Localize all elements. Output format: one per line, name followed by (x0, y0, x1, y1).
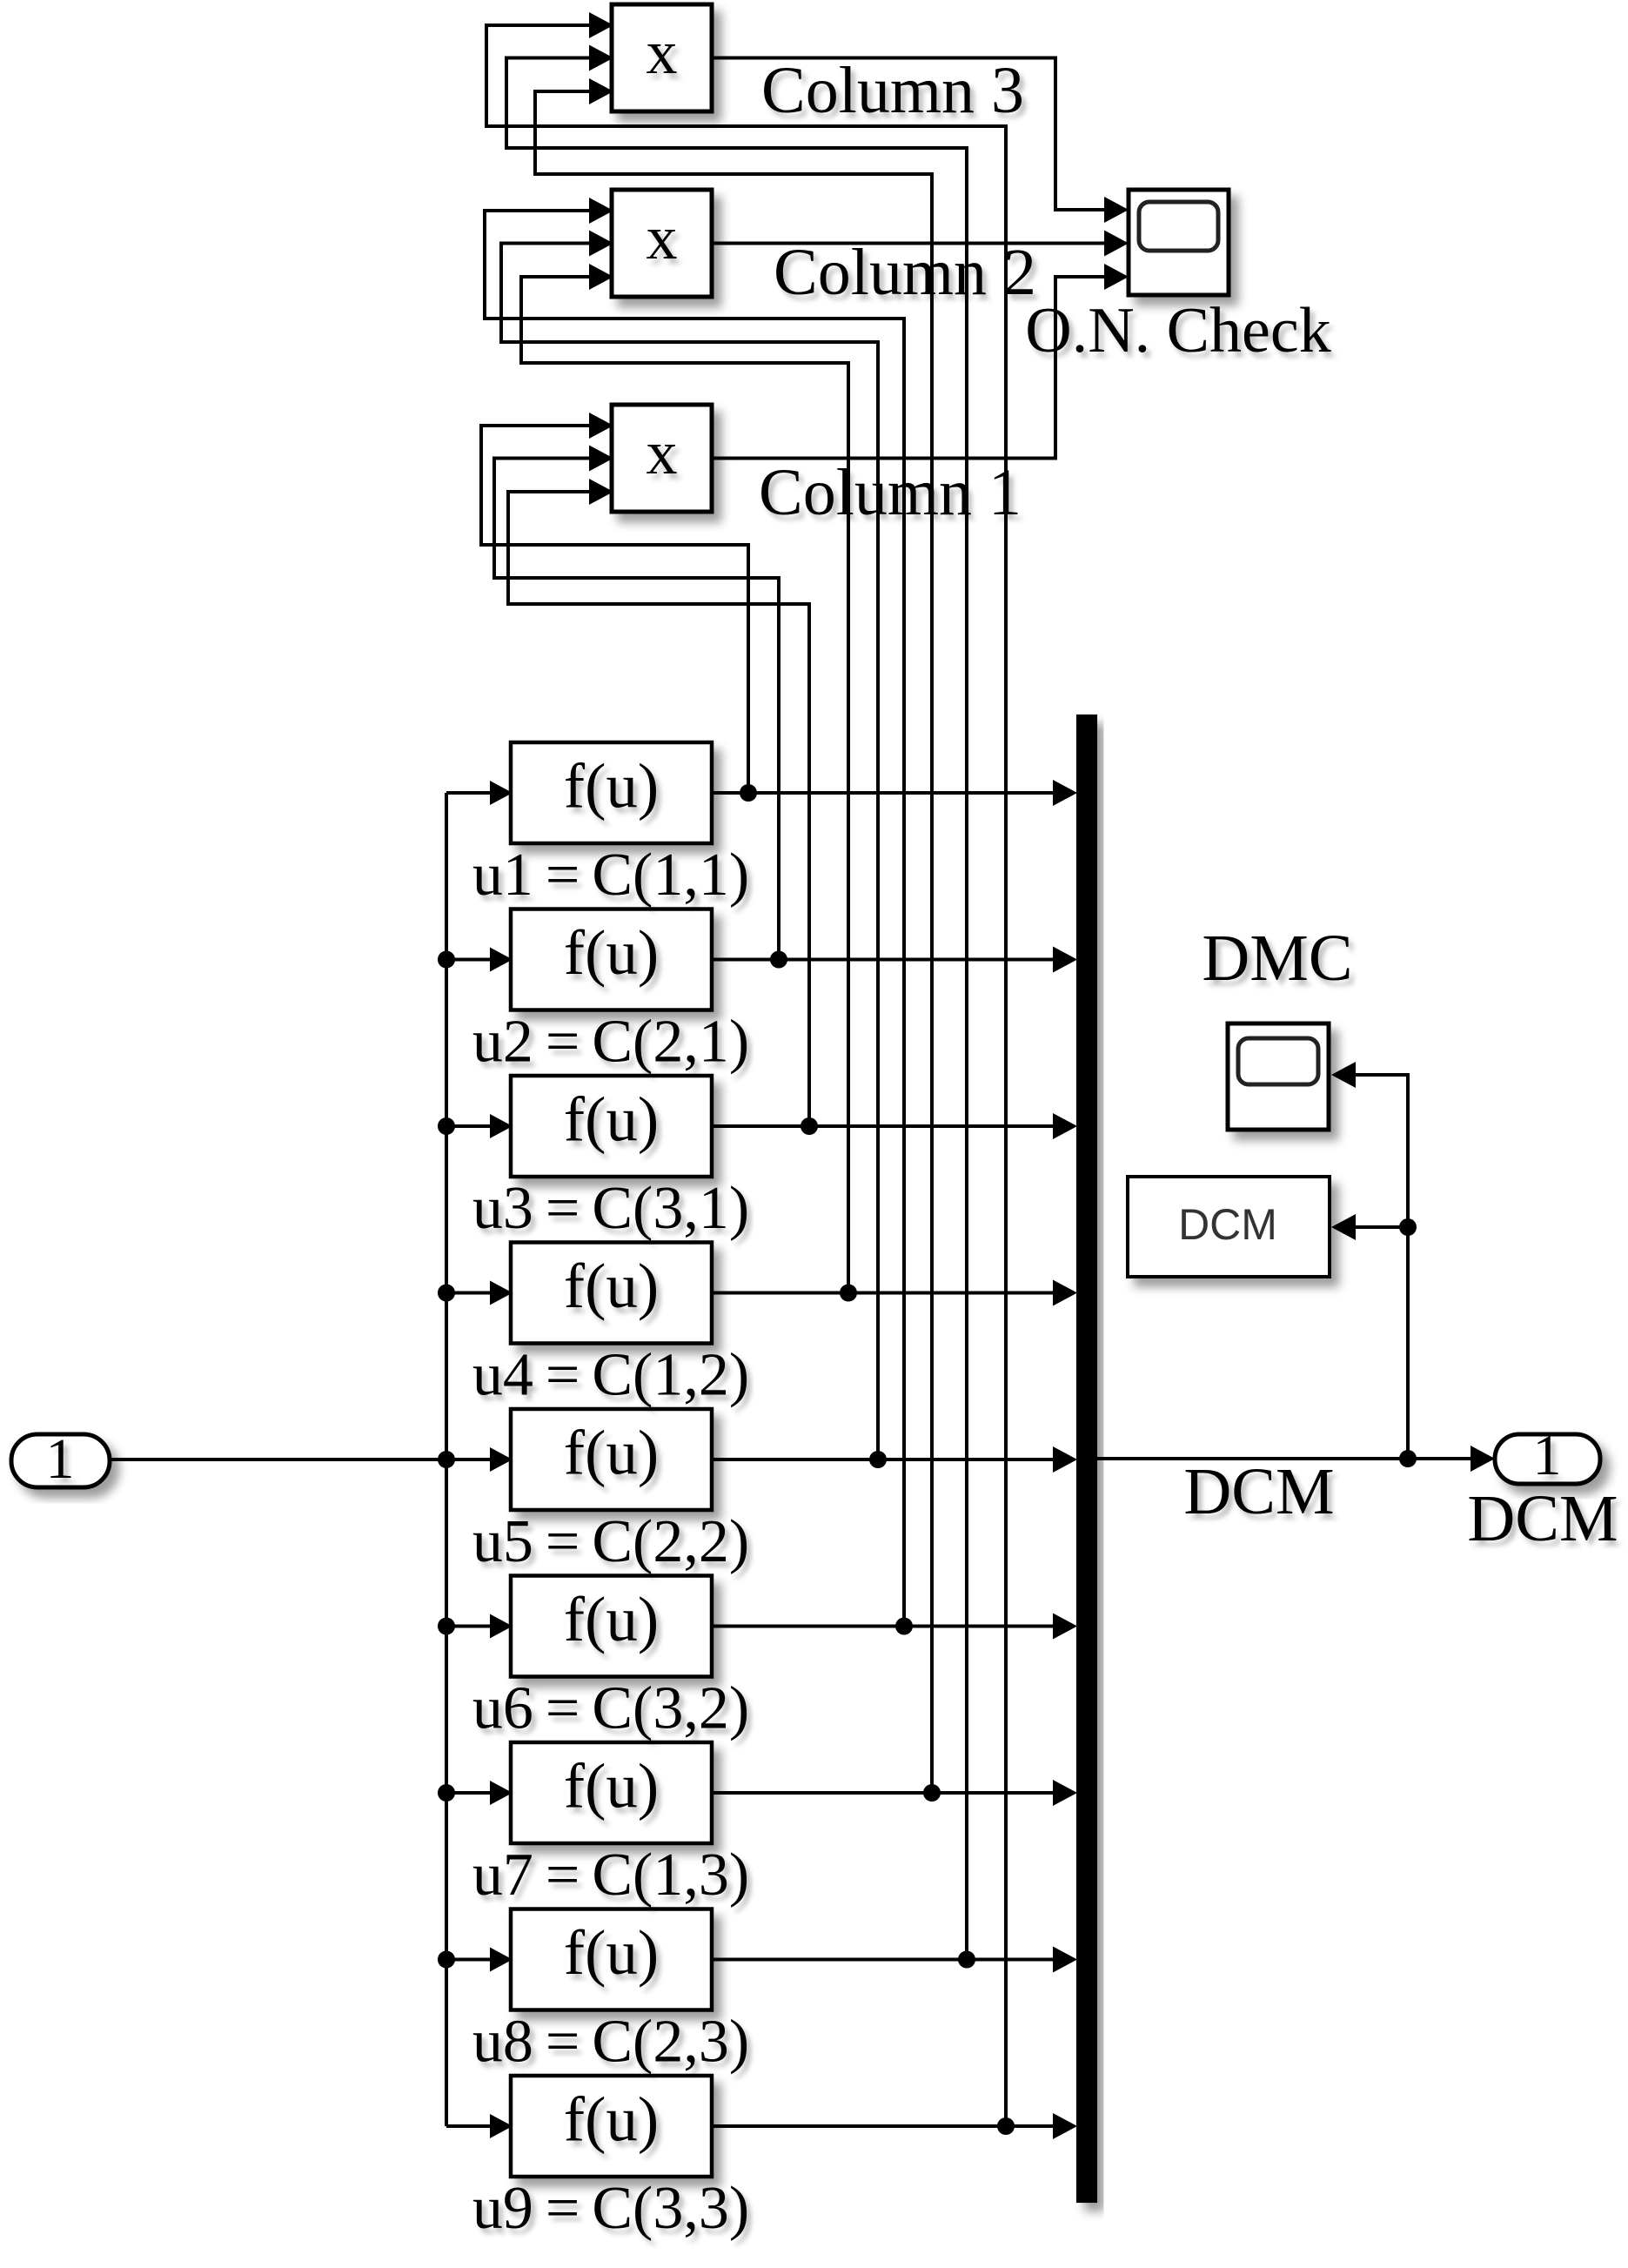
svg-text:x: x (647, 17, 678, 87)
node rail junction row 4 (438, 1285, 455, 1302)
svg-text:Column 2: Column 2 (774, 236, 1036, 309)
node junction DCM/DMC branch (1399, 1218, 1417, 1236)
svg-text:DMC: DMC (1202, 922, 1352, 995)
block Fcn3 f(u) (511, 1076, 712, 1177)
wire Column3 in3 from u7 tap (535, 78, 932, 1793)
svg-text:x: x (647, 203, 678, 272)
svg-text:1: 1 (46, 1427, 75, 1491)
node tap junction u9 (997, 2117, 1015, 2135)
svg-text:f(u): f(u) (564, 1084, 659, 1155)
wire Fcn1 output to Mux in1 (712, 780, 1077, 806)
svg-text:u2 = C(2,1): u2 = C(2,1) (472, 1009, 749, 1076)
svg-text:f(u): f(u) (564, 1917, 659, 1988)
node junction mux output branch (1399, 1450, 1417, 1467)
svg-text:DCM: DCM (1467, 1482, 1618, 1555)
node tap junction u4 (840, 1285, 857, 1302)
block Scope O.N. Check (1129, 190, 1229, 295)
wire rail branch to Fcn6 input (446, 1614, 513, 1639)
wire Fcn2 output to Mux in2 (712, 947, 1077, 973)
svg-text:u4 = C(1,2): u4 = C(1,2) (472, 1342, 749, 1409)
node rail junction row 8 (438, 1951, 455, 1969)
wire Column3 in1 from u9 tap (486, 12, 1006, 2126)
wire Column2 in3 from u4 tap (521, 264, 848, 1293)
svg-text:f(u): f(u) (564, 1751, 659, 1822)
wire Column2 product output to Scope in2 (712, 231, 1129, 257)
block Fcn4 f(u) (511, 1243, 712, 1344)
node rail junction row 6 (438, 1618, 455, 1635)
svg-text:u6 = C(3,2): u6 = C(3,2) (472, 1675, 749, 1742)
wire Column1 in3 from u3 tap (508, 479, 809, 1126)
wire rail branch to Fcn9 input (446, 2114, 513, 2138)
svg-text:f(u): f(u) (564, 1418, 659, 1488)
wire Fcn7 output to Mux in7 (712, 1780, 1077, 1806)
block Mux bar (1076, 715, 1097, 2203)
wire branch up to DMC scope (1331, 1062, 1408, 1227)
node tap junction u6 (895, 1618, 913, 1635)
node tap junction u5 (869, 1451, 887, 1468)
svg-text:Column 3: Column 3 (761, 54, 1024, 127)
wire Fcn3 output to Mux in3 (712, 1113, 1077, 1139)
svg-text:Column 1: Column 1 (759, 456, 1022, 529)
block Product Column1 (dot product) (612, 405, 712, 512)
svg-text:DCM: DCM (1183, 1455, 1334, 1528)
wire Column3 in2 from u8 tap (506, 45, 967, 1960)
wire input port 1 to rail (108, 1458, 446, 1461)
svg-text:f(u): f(u) (564, 2084, 659, 2155)
block Product Column3 (dot product) (612, 4, 712, 111)
node rail junction row 3 (438, 1117, 455, 1135)
node rail junction row 7 (438, 1784, 455, 1802)
block Fcn6 f(u) (511, 1576, 712, 1677)
wire rail branch to Fcn2 input (446, 948, 513, 972)
block Product Column2 (dot product) (612, 190, 712, 297)
svg-text:f(u): f(u) (564, 1251, 659, 1321)
block Fcn7 f(u) (511, 1742, 712, 1843)
block Fcn8 f(u) (511, 1909, 712, 2010)
block Fcn2 f(u) (511, 909, 712, 1010)
node tap junction u7 (923, 1784, 941, 1802)
wire Column1 in2 from u2 tap (494, 446, 779, 960)
port input 1 (11, 1427, 110, 1491)
node tap junction u1 (740, 784, 757, 802)
svg-text:u7 = C(1,3): u7 = C(1,3) (472, 1842, 749, 1909)
svg-text:1: 1 (1533, 1424, 1562, 1487)
wire Fcn9 output to Mux in9 (712, 2113, 1077, 2139)
node tap junction u3 (801, 1117, 818, 1135)
svg-text:u5 = C(2,2): u5 = C(2,2) (472, 1508, 749, 1575)
wire rail branch to Fcn3 input (446, 1114, 513, 1138)
svg-text:f(u): f(u) (564, 751, 659, 822)
block Scope DMC (1228, 1023, 1329, 1130)
svg-text:u9 = C(3,3): u9 = C(3,3) (472, 2175, 749, 2242)
block Fcn5 f(u) (511, 1409, 712, 1510)
wire Fcn5 output to Mux in5 (712, 1446, 1077, 1473)
svg-text:O.N. Check: O.N. Check (1025, 295, 1330, 366)
wire Column2 in2 from u5 tap (501, 231, 878, 1460)
wire rail branch to Fcn7 input (446, 1781, 513, 1805)
svg-text:DCM: DCM (1178, 1200, 1277, 1249)
wire Fcn8 output to Mux in8 (712, 1947, 1077, 1973)
wire Column1 product output to Scope in3 (712, 264, 1129, 459)
wire Fcn4 output to Mux in4 (712, 1280, 1077, 1306)
wire Column1 in1 from u1 tap (481, 413, 748, 793)
svg-text:u3 = C(3,1): u3 = C(3,1) (472, 1175, 749, 1242)
wire rail branch to Fcn4 input (446, 1281, 513, 1305)
wire rail branch to Fcn1 input (446, 781, 513, 805)
port output 1 DCM (1495, 1424, 1600, 1487)
wire Column3 product output to Scope in1 (712, 58, 1129, 224)
svg-text:u8 = C(2,3): u8 = C(2,3) (472, 2009, 749, 2076)
wire rail branch to Fcn5 input (446, 1447, 513, 1472)
node rail junction row 5 (438, 1451, 455, 1468)
node tap junction u8 (958, 1951, 975, 1969)
block Fcn9 f(u) (511, 2076, 712, 2177)
wire Fcn6 output to Mux in6 (712, 1614, 1077, 1640)
wire Column2 in1 from u6 tap (485, 198, 904, 1627)
svg-text:u1 = C(1,1): u1 = C(1,1) (472, 842, 749, 909)
svg-text:f(u): f(u) (564, 1584, 659, 1654)
svg-text:x: x (647, 418, 678, 487)
wire Mux output to DCM outport (1097, 1446, 1495, 1472)
node rail junction row 2 (438, 951, 455, 969)
wire rail branch to Fcn8 input (446, 1948, 513, 1972)
node tap junction u2 (770, 951, 787, 969)
block DCM display (1128, 1177, 1330, 1277)
wire branch up to DCM block (1331, 1214, 1408, 1459)
block Fcn1 f(u) (511, 742, 712, 843)
svg-text:f(u): f(u) (564, 917, 659, 988)
wire input rail vertical (445, 793, 448, 2126)
